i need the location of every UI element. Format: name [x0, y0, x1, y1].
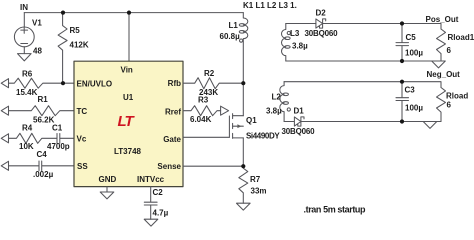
resistor R3	[183, 106, 221, 116]
capacitor C2	[144, 187, 157, 220]
svg-text:D1: D1	[294, 107, 305, 116]
svg-text:Rfb: Rfb	[168, 79, 181, 88]
wire V1 bottom stem	[23, 47, 25, 54]
wire pos bottom rail	[286, 60, 441, 62]
svg-text:30BQ060: 30BQ060	[305, 29, 339, 38]
svg-text:U1: U1	[123, 93, 134, 102]
port flag TC row	[1, 106, 8, 115]
ground under R7	[237, 203, 251, 210]
svg-text:30BQ060: 30BQ060	[282, 127, 316, 136]
svg-text:Vin: Vin	[121, 65, 133, 74]
svg-text:6: 6	[447, 101, 452, 110]
inductor L2	[280, 82, 284, 122]
svg-text:.002µ: .002µ	[33, 170, 54, 179]
svg-text:L2: L2	[272, 93, 282, 102]
capacitor C3	[396, 82, 409, 122]
resistor R2	[183, 78, 243, 89]
svg-text:C3: C3	[405, 86, 416, 95]
svg-text:LT3748: LT3748	[114, 147, 142, 156]
svg-text:3.8µ: 3.8µ	[292, 42, 308, 51]
svg-text:Vc: Vc	[77, 135, 87, 144]
svg-text:Rref: Rref	[165, 108, 181, 117]
svg-text:R4: R4	[22, 124, 33, 133]
wire pos rail	[286, 24, 441, 30]
diode D2 30BQ060	[316, 19, 326, 28]
svg-text:EN/UVLO: EN/UVLO	[77, 80, 113, 89]
port flag Vc row	[1, 134, 8, 143]
svg-text:C2: C2	[153, 188, 164, 197]
capacitor C1	[57, 134, 74, 144]
svg-text:R5: R5	[70, 26, 81, 35]
wire Sense row	[183, 165, 243, 167]
port flag after R3	[221, 106, 229, 115]
svg-text:TC: TC	[77, 107, 88, 116]
svg-text:L1: L1	[229, 21, 239, 30]
svg-text:Pos_Out: Pos_Out	[426, 15, 459, 24]
svg-text:Rload1: Rload1	[448, 33, 474, 42]
svg-text:10K: 10K	[19, 142, 34, 151]
capacitor C4	[9, 161, 75, 171]
svg-text:Sense: Sense	[157, 162, 181, 171]
ground pos out	[432, 61, 446, 68]
ground neg out	[423, 122, 437, 129]
wire neg bottom rail	[301, 121, 441, 123]
wire neg top rail	[284, 82, 441, 88]
svg-text:R3: R3	[198, 96, 209, 105]
svg-text:3.8µ: 3.8µ	[266, 107, 282, 116]
svg-text:4700p: 4700p	[47, 142, 70, 151]
svg-text:C4: C4	[37, 150, 48, 159]
svg-text:K1 L1 L2 L3 1.: K1 L1 L2 L3 1.	[243, 1, 297, 10]
svg-text:Si4490DY: Si4490DY	[246, 131, 280, 140]
wire V1 top stem	[23, 13, 25, 27]
svg-text:60.8µ: 60.8µ	[220, 32, 241, 41]
capacitor C5	[396, 24, 409, 62]
resistor R6	[9, 78, 75, 88]
resistor R7	[239, 166, 248, 203]
svg-text:R1: R1	[38, 95, 49, 104]
svg-text:100µ: 100µ	[405, 104, 423, 113]
svg-text:Rload: Rload	[446, 91, 468, 100]
wire Gate row	[183, 136, 229, 138]
svg-text:C1: C1	[52, 124, 63, 133]
svg-text:33m: 33m	[251, 187, 267, 196]
port flag EN/UVLO row	[1, 79, 8, 88]
resistor Rload	[437, 88, 446, 122]
svg-text:15.4K: 15.4K	[16, 88, 38, 97]
svg-text:6: 6	[447, 46, 452, 55]
ground under C2	[144, 219, 158, 226]
port flag SS row	[1, 161, 8, 170]
svg-text:GND: GND	[99, 175, 117, 184]
resistor R4	[9, 133, 58, 143]
ground under V1	[18, 54, 32, 61]
svg-text:R6: R6	[22, 70, 33, 79]
svg-text:R7: R7	[250, 175, 261, 184]
svg-text:R2: R2	[204, 69, 215, 78]
voltage source V1	[14, 27, 34, 47]
svg-text:L3: L3	[290, 29, 300, 38]
diode D1 30BQ060	[284, 117, 304, 126]
svg-text:.tran 5m startup: .tran 5m startup	[304, 205, 367, 215]
svg-text:C5: C5	[406, 33, 417, 42]
svg-text:Neg_Out: Neg_Out	[427, 70, 461, 79]
svg-text:100µ: 100µ	[405, 49, 423, 58]
svg-text:INTVcc: INTVcc	[137, 175, 165, 184]
svg-text:V1: V1	[32, 19, 42, 28]
wire Vin stem	[128, 13, 130, 62]
resistor R1	[9, 106, 75, 116]
svg-text:IN: IN	[20, 3, 28, 12]
svg-text:412K: 412K	[70, 41, 89, 50]
svg-text:SS: SS	[77, 162, 88, 171]
svg-text:6.04K: 6.04K	[190, 115, 212, 124]
svg-text:Q1: Q1	[246, 116, 257, 125]
transistor Q1 Si4490DY	[228, 116, 230, 137]
resistor Rload1	[437, 29, 446, 61]
op-amp U1 LT3748 body	[74, 61, 183, 186]
svg-text:Gate: Gate	[163, 135, 181, 144]
ground at GND pin	[100, 187, 114, 199]
inductor L3	[282, 24, 286, 62]
inductor L1	[243, 13, 248, 84]
wire top IN rail	[24, 12, 243, 14]
svg-text:48: 48	[33, 47, 42, 56]
resistor R5	[58, 13, 67, 84]
svg-text:D2: D2	[316, 9, 327, 18]
svg-text:4.7µ: 4.7µ	[153, 209, 169, 218]
